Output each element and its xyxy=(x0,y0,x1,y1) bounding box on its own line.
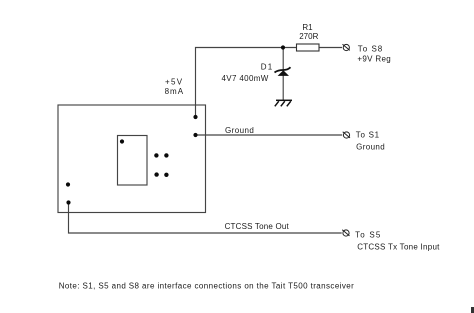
svg-text:Ground: Ground xyxy=(225,126,254,135)
svg-text:To S5: To S5 xyxy=(355,230,381,239)
svg-text:Ground: Ground xyxy=(356,142,385,151)
svg-text:Note: S1, S5 and S8 are interf: Note: S1, S5 and S8 are interface connec… xyxy=(59,282,355,291)
svg-text:To S1: To S1 xyxy=(356,131,380,140)
svg-text:CTCSS Tx Tone Input: CTCSS Tx Tone Input xyxy=(357,243,440,252)
svg-text:4V7 400mW: 4V7 400mW xyxy=(222,74,269,83)
svg-text:R1: R1 xyxy=(302,23,313,32)
svg-text:To S8: To S8 xyxy=(358,44,383,53)
svg-text:270R: 270R xyxy=(299,32,318,41)
svg-text:+5V: +5V xyxy=(165,77,183,86)
svg-text:D1: D1 xyxy=(261,62,274,71)
svg-text:CTCSS Tone Out: CTCSS Tone Out xyxy=(225,222,290,231)
svg-text:8mA: 8mA xyxy=(165,87,184,96)
svg-text:+9V Reg: +9V Reg xyxy=(357,55,391,64)
